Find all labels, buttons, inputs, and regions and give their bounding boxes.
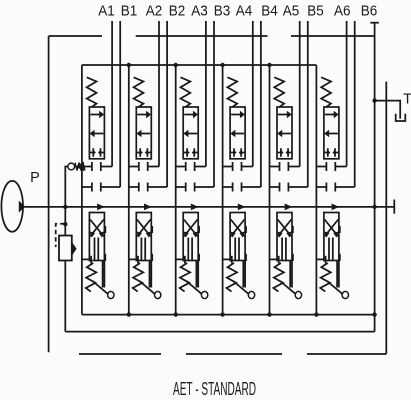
P-line flow arrow section 4 [238, 204, 246, 211]
svg-text:P: P [30, 170, 40, 186]
section 3 aux left stub [176, 258, 185, 260]
section 5 return spring [273, 263, 284, 292]
section 1 B-port bar right [100, 183, 102, 192]
section 3 auxiliary valve box [183, 213, 198, 261]
section 4 crossed flow arrows [231, 220, 245, 237]
section 2 crossed flow arrows [137, 220, 151, 237]
section 6 crossed flow arrows [325, 220, 339, 237]
inlet pilot link [84, 166, 92, 168]
section 2 straight flow paths [141, 238, 145, 261]
enclosure boundary top (dashed) [49, 35, 375, 37]
section 4 straight flow paths [235, 238, 239, 261]
section 2 spool arrow right [137, 114, 146, 116]
upper tank bus [82, 64, 317, 66]
section 6 blocked ports [325, 148, 339, 156]
section 5 left feed bar (row2) [279, 162, 281, 171]
P-line flow arrow section 2 [144, 204, 152, 211]
P-line flow arrow section 5 [285, 204, 293, 211]
section 6 straight flow paths [329, 238, 333, 261]
section 6 return spring [320, 263, 331, 292]
section 4 return spring [227, 263, 238, 292]
section 4 centering spring [227, 77, 237, 107]
section 1 lever knob [108, 291, 114, 298]
section 4 B-port bar right [241, 183, 243, 192]
section 6 left bar (row3) [325, 183, 327, 192]
section 2 return spring [133, 263, 144, 292]
section 1 lever [93, 281, 109, 294]
svg-text:B2: B2 [169, 3, 186, 19]
section 6 spool box [324, 107, 339, 159]
upper bus junction dot x=128.8 [127, 63, 131, 67]
section 4 aux left stub [223, 258, 232, 260]
section 3 aux bottom bar [184, 256, 186, 264]
svg-text:A3: A3 [191, 3, 208, 19]
svg-text:B4: B4 [261, 3, 278, 19]
P-line flow arrow section 1 [97, 204, 105, 211]
svg-text:T: T [403, 92, 411, 108]
section 2 B-port bar right [147, 183, 149, 192]
svg-text:A2: A2 [146, 3, 163, 19]
svg-text:B3: B3 [214, 3, 231, 19]
port line B4 [260, 21, 262, 187]
section 3 blocked ports [184, 148, 198, 156]
section 5 auxiliary valve box [277, 213, 292, 261]
section 5 straight flow paths [282, 238, 286, 261]
section 6 spool arrow right [325, 114, 334, 116]
port line A3 [205, 21, 207, 167]
relief drain line [64, 261, 66, 332]
lower tank bus [82, 314, 375, 316]
section 3 straight flow paths [188, 238, 192, 261]
port line B3 [213, 21, 215, 187]
section 5 B-port bar right [287, 183, 289, 192]
svg-text:B1: B1 [121, 3, 138, 19]
svg-text:A5: A5 [283, 3, 300, 19]
section 5 B-port link [288, 186, 307, 188]
lower bus junction dot right [372, 312, 376, 316]
section 4 blocked ports [231, 148, 245, 156]
section 1 aux outlet lines [103, 261, 105, 288]
section 1 left link (row3) [82, 186, 92, 188]
section 5 left bar (row3) [279, 183, 281, 192]
section 2 B-port link [148, 186, 167, 188]
section 6 spool arrow left [329, 133, 338, 135]
port line B2 [166, 21, 168, 187]
section 4 spool box [230, 107, 245, 159]
section 4 B-port link [242, 186, 261, 188]
section 4 spool arrow left [235, 133, 244, 135]
section 3 aux right port bars [198, 226, 200, 261]
pump outlet arrowhead [19, 201, 25, 213]
section 1 A-port bar right [100, 162, 102, 171]
P line end plug [393, 200, 395, 214]
port line A2 [158, 21, 160, 167]
section 2 lever knob [155, 291, 161, 298]
lower bus junction dot x=269.5 [267, 312, 271, 316]
port line B6 [354, 21, 356, 187]
section 3 A-port bar right [194, 162, 196, 171]
section 6 lever knob [342, 291, 348, 298]
section 2 aux bottom bar [137, 256, 139, 264]
T port cap [370, 22, 379, 24]
svg-text:A4: A4 [236, 3, 253, 19]
section 1 aux bottom bar [90, 256, 92, 264]
section 1 straight flow paths [95, 238, 99, 261]
svg-text:A1: A1 [98, 3, 115, 19]
section 3 return spring [180, 263, 191, 292]
section 3 left feed link (row2) [176, 166, 186, 168]
section 4 aux bottom bar [231, 256, 233, 264]
section 1 aux left stub [82, 258, 91, 260]
section 5 A-port link [288, 166, 299, 168]
upper bus junction dot x=175.7 [174, 63, 178, 67]
tank gallery line x=316.4 [315, 65, 317, 315]
section 4 aux outlet lines [243, 261, 245, 288]
tank branch junction dot [372, 98, 376, 102]
section 3 B-port bar right [194, 183, 196, 192]
section 5 spool arrow left [282, 133, 291, 135]
section 3 spool arrow left [188, 133, 197, 135]
svg-text:AET - STANDARD: AET - STANDARD [173, 379, 256, 399]
section 4 spool arrow right [231, 114, 240, 116]
junction dot P-relief [63, 205, 67, 209]
section 5 centering spring [274, 77, 284, 107]
tank gallery line x=222.6 [222, 65, 224, 315]
section 1 centering spring [87, 77, 97, 107]
section 2 spool box [136, 107, 151, 159]
section 2 spool arrow left [141, 133, 150, 135]
upper bus junction dot x=222.6 [220, 63, 224, 67]
section 3 A-port link [195, 166, 206, 168]
section 6 centering spring [321, 77, 331, 107]
port line A1 [111, 21, 113, 167]
port line B5 [307, 21, 309, 187]
lower bus junction dot x=175.7 [174, 312, 178, 316]
section 5 crossed flow arrows [278, 220, 292, 237]
section 2 aux left stub [129, 258, 138, 260]
relief pilot junction dot [63, 222, 67, 226]
section 3 spool box [183, 107, 198, 159]
section 2 aux outlet lines [150, 261, 152, 288]
section 6 left link (row3) [316, 186, 326, 188]
section 3 lever knob [201, 291, 207, 298]
section 2 left link (row3) [129, 186, 139, 188]
section 6 aux right port bars [339, 226, 341, 261]
carryover line to T [374, 23, 376, 332]
section 1 crossed flow arrows [90, 220, 104, 237]
P supply line [25, 206, 395, 208]
section 5 aux outlet lines [290, 261, 292, 288]
pump P [1, 181, 23, 232]
section 2 auxiliary valve box [136, 213, 151, 261]
section 1 auxiliary valve box [89, 213, 104, 261]
section 1 return spring [86, 263, 97, 292]
tank gallery line x=128.8 [128, 65, 130, 315]
relief pilot line (dashed) [56, 224, 65, 247]
section 1 row2 bar [91, 162, 93, 171]
section 3 left link (row3) [176, 186, 186, 188]
port line A6 [346, 21, 348, 167]
section 5 spool box [277, 107, 292, 159]
upper bus junction dot x=269.5 [267, 63, 271, 67]
tank gallery line x=175.7 [175, 65, 177, 315]
svg-text:B5: B5 [307, 3, 324, 19]
section 2 left bar (row3) [138, 183, 140, 192]
section 6 left feed link (row2) [316, 166, 326, 168]
lower bus junction dot x=128.8 [127, 312, 131, 316]
section 5 lever knob [295, 291, 301, 298]
section 1 blocked ports [90, 148, 104, 156]
section 5 aux bottom bar [278, 256, 280, 264]
section 5 A-port bar right [287, 162, 289, 171]
section 4 lever [233, 281, 249, 294]
port line B1 [119, 21, 121, 187]
section 2 lever [139, 281, 155, 294]
section 6 left feed bar (row2) [325, 162, 327, 171]
relief drain bus [65, 331, 374, 333]
left closure line [81, 65, 83, 315]
section 5 lever [280, 281, 296, 294]
section 3 centering spring [181, 77, 191, 107]
section 5 aux right port bars [292, 226, 294, 261]
section 6 A-port link [335, 166, 346, 168]
section 1 spool box [89, 107, 104, 159]
section 2 centering spring [134, 77, 144, 107]
tank branch line [375, 101, 401, 119]
section 3 lever [186, 281, 202, 294]
section 6 B-port bar right [334, 183, 336, 192]
section 5 blocked ports [278, 148, 292, 156]
section 5 spool arrow right [278, 114, 287, 116]
section 3 left bar (row3) [185, 183, 187, 192]
lower bus junction dot x=222.6 [220, 312, 224, 316]
lower bus junction dot x=316.4 [314, 312, 318, 316]
section 2 left feed link (row2) [129, 166, 139, 168]
junction dot P-carryover [372, 205, 376, 209]
section 5 aux left stub [270, 258, 279, 260]
section 5 left link (row3) [270, 186, 280, 188]
inlet pilot knob [68, 163, 75, 170]
section 3 aux outlet lines [196, 261, 198, 288]
section 2 A-port link [148, 166, 159, 168]
tank symbol [396, 114, 406, 121]
section 4 left bar (row3) [232, 183, 234, 192]
section 6 aux outlet lines [337, 261, 339, 288]
section 5 left feed link (row2) [270, 166, 280, 168]
section 2 A-port bar right [147, 162, 149, 171]
section 2 left feed bar (row2) [138, 162, 140, 171]
inlet pilot riser [65, 167, 68, 207]
section 2 blocked ports [137, 148, 151, 156]
section 1 aux right port bars [104, 226, 106, 261]
section 1 spool arrow left [94, 133, 103, 135]
inlet pilot spring [75, 163, 85, 171]
section 4 A-port bar right [241, 162, 243, 171]
section 6 B-port link [335, 186, 354, 188]
enclosure boundary right [385, 82, 387, 355]
section 3 B-port link [195, 186, 214, 188]
section 4 left feed link (row2) [223, 166, 233, 168]
section 4 auxiliary valve box [230, 213, 245, 261]
section 6 lever [327, 281, 343, 294]
relief valve spring arrow [72, 242, 77, 256]
section 4 left link (row3) [223, 186, 233, 188]
section 6 aux left stub [317, 258, 326, 260]
section 1 B-port link [101, 186, 120, 188]
section 6 aux bottom bar [325, 256, 327, 264]
section 3 crossed flow arrows [184, 220, 198, 237]
port line A4 [252, 21, 254, 167]
svg-text:A6: A6 [334, 3, 351, 19]
section 1 left bar (row3) [91, 183, 93, 192]
section 2 aux right port bars [151, 226, 153, 261]
relief valve feed line [64, 207, 66, 236]
P-line flow arrow section 3 [191, 204, 199, 211]
section 6 A-port bar right [334, 162, 336, 171]
section 4 left feed bar (row2) [232, 162, 234, 171]
section 1 spool arrow right [90, 114, 99, 116]
section 4 lever knob [248, 291, 254, 298]
enclosure boundary bottom (dashed) [79, 353, 386, 355]
tank gallery line x=269.5 [269, 65, 271, 315]
section 3 spool arrow right [184, 114, 193, 116]
inlet pilot arrowhead [76, 162, 84, 171]
svg-text:B6: B6 [361, 3, 378, 19]
section 3 left feed bar (row2) [185, 162, 187, 171]
enclosure boundary left [48, 36, 50, 352]
section 1 A-port link [101, 166, 112, 168]
relief valve body [59, 236, 72, 261]
section 6 auxiliary valve box [324, 213, 339, 261]
section 4 A-port link [242, 166, 253, 168]
section 4 aux right port bars [245, 226, 247, 261]
port line A5 [299, 21, 301, 167]
P-line flow arrow section 6 [332, 204, 340, 211]
